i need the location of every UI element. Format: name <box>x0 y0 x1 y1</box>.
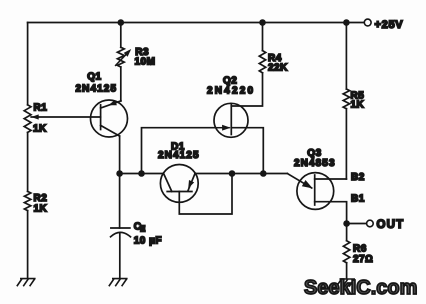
wire OUT stub <box>347 223 367 225</box>
svg-text:22K: 22K <box>268 62 288 73</box>
Q2 source lead <box>231 128 263 174</box>
resistor R2 <box>24 191 30 210</box>
wire top rail to R5 <box>345 23 347 90</box>
transistor Q2 internals: channel bar <box>230 104 232 135</box>
junction dot top rail at R3 <box>118 19 125 26</box>
R3 arrow <box>116 51 130 65</box>
diode D1 internals: base bar <box>167 191 192 193</box>
diode-connected transistor D1 circle <box>160 165 198 203</box>
node junction dot at Q2 source branch <box>260 170 267 177</box>
wire top rail to R4 <box>262 23 264 51</box>
wire R1 wiper to Q1 base <box>31 116 100 118</box>
svg-text:OUT: OUT <box>377 219 405 231</box>
svg-text:27Ω: 27Ω <box>353 254 373 265</box>
ground under R6 <box>337 279 355 286</box>
svg-text:1K: 1K <box>33 123 47 134</box>
capacitor CE curved plate <box>111 232 131 236</box>
wire R3 to Q1 emitter <box>120 67 122 101</box>
ground left <box>17 279 35 286</box>
Q3 B1 lead <box>315 202 347 224</box>
Q3 B2 lead <box>315 178 347 180</box>
ground under CE <box>109 279 127 286</box>
node junction dot at D1 base loop <box>229 170 236 177</box>
terminal OUT circle <box>367 220 374 227</box>
svg-text:+25V: +25V <box>375 19 404 31</box>
resistor R5 <box>343 89 349 109</box>
Q3 emitter arrowhead <box>302 180 313 188</box>
svg-text:1K: 1K <box>34 203 48 214</box>
R1 wiper arrowhead <box>31 114 39 119</box>
svg-text:2N4125: 2N4125 <box>76 84 118 95</box>
node junction dot at Q1/CE <box>116 170 123 177</box>
svg-text:B2: B2 <box>351 172 365 183</box>
svg-text:E: E <box>140 225 146 234</box>
terminal +25V circle <box>364 19 371 26</box>
wire left rail <box>27 23 29 279</box>
svg-text:1K: 1K <box>351 99 365 110</box>
Q1 emitter arrowhead <box>108 100 117 105</box>
svg-text:R2: R2 <box>34 193 48 204</box>
wire node to capacitor CE <box>119 174 121 229</box>
wire OUT node to R6 <box>346 224 348 241</box>
svg-text:10M: 10M <box>135 57 156 68</box>
D1 base loop wire <box>179 174 232 215</box>
wire CE to ground <box>119 233 121 279</box>
svg-text:2N4220: 2N4220 <box>207 86 255 97</box>
wire Q1 collector down to node <box>119 136 121 173</box>
svg-text:2N4125: 2N4125 <box>158 150 200 161</box>
D1 emitter lead with arrow <box>188 174 195 191</box>
resistor R4 <box>259 51 265 73</box>
transistor Q2 circle <box>214 103 248 137</box>
resistor R6 <box>343 241 349 263</box>
resistor R3 (variable) <box>117 47 124 67</box>
svg-text:10 µF: 10 µF <box>134 236 162 247</box>
Q1 emitter lead <box>101 101 121 108</box>
unijunction transistor Q3 circle <box>297 173 334 210</box>
svg-text:SeekIC.com: SeekIC.com <box>304 277 417 299</box>
Q2 drain lead <box>231 73 262 106</box>
wire main horizontal node rail (right part) <box>195 173 287 175</box>
Q1 collector lead <box>101 125 120 136</box>
svg-text:2N4853: 2N4853 <box>294 158 336 169</box>
wire emitter diagonal into Q3 <box>287 174 311 189</box>
wire Q2 gate branch <box>142 128 216 174</box>
svg-text:R6: R6 <box>353 243 367 254</box>
junction dot top rail at R4 <box>259 19 266 26</box>
node junction dot at Q2 gate branch <box>138 170 145 177</box>
Q2 gate lead with arrow <box>215 127 229 129</box>
wire top supply rail <box>28 22 365 24</box>
svg-text:R1: R1 <box>34 103 48 114</box>
wire R6 to ground <box>346 263 348 279</box>
resistor R1 <box>24 105 31 133</box>
D1 collector lead <box>164 174 172 192</box>
node junction dot OUT <box>343 220 350 227</box>
wire top rail to R3 <box>120 23 122 48</box>
wire R5 to B2 corner <box>345 109 347 179</box>
svg-text:B1: B1 <box>351 194 365 205</box>
junction dot top rail at R5 <box>343 19 350 26</box>
transistor Q1 internals: base bar <box>100 105 102 130</box>
capacitor CE top plate <box>111 227 130 229</box>
Q3 internals: base bar <box>314 175 316 205</box>
transistor Q1 circle <box>91 100 128 137</box>
svg-text:Q1: Q1 <box>87 72 101 83</box>
wire main horizontal node rail (left part) <box>120 173 164 175</box>
